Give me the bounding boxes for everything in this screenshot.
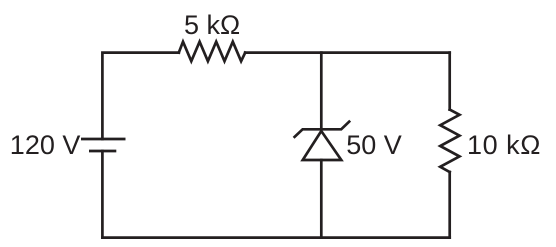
resistor R1 5 kOhm (horizontal zigzag, top rail)	[179, 42, 245, 62]
wire middle branch bottom (zener anode down to bottom rail)	[320, 160, 323, 238]
wire bottom rail	[102, 236, 449, 239]
wire top rail right segment from resistor to top-right corner	[245, 51, 450, 54]
resistor R2 10 kOhm (vertical zigzag, right branch)	[440, 110, 459, 172]
svg-text:10 kΩ: 10 kΩ	[467, 130, 541, 160]
wire right vertical from resistor R2 down to bottom-right corner	[448, 172, 451, 238]
svg-text:5 kΩ: 5 kΩ	[184, 10, 240, 40]
wire middle branch top (node at top rail down to zener cathode)	[320, 53, 323, 130]
zener diode D1 anode triangle	[303, 131, 342, 160]
svg-text:50 V: 50 V	[346, 130, 402, 160]
wire left vertical below battery to bottom-left corner	[101, 151, 104, 238]
svg-text:120 V: 120 V	[10, 130, 81, 160]
wire right vertical from top-right corner down to resistor R2	[448, 53, 451, 110]
zener diode D1 cathode bar with bent tabs	[295, 122, 350, 137]
battery V1 120 V negative plate (short)	[89, 150, 116, 153]
battery V1 120 V positive plate (long)	[81, 138, 126, 141]
wire top-left: top rail left segment and left vertical down to battery	[102, 53, 178, 139]
